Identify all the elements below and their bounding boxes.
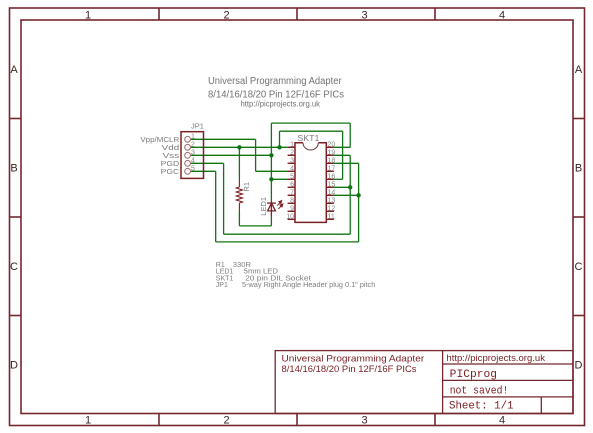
SKT1 pin 9 stub (288, 210, 295, 212)
JP1 pin 4 circle (185, 160, 191, 166)
svg-text:R1: R1 (242, 182, 251, 192)
svg-text:2: 2 (223, 10, 229, 22)
svg-text:4: 4 (499, 415, 505, 427)
svg-text:2: 2 (223, 415, 229, 427)
svg-text:9: 9 (290, 206, 294, 213)
LED1 triangle (268, 203, 276, 211)
SKT1 pin 15 stub (326, 186, 334, 188)
JP1 pin 5 circle (185, 168, 191, 174)
svg-text:14: 14 (328, 190, 336, 197)
svg-text:LED1: LED1 (259, 197, 268, 216)
svg-text:1: 1 (85, 415, 91, 427)
svg-text:19: 19 (328, 150, 336, 157)
svg-text:Universal Programming Adapter: Universal Programming Adapter (282, 354, 425, 365)
svg-text:D: D (575, 360, 583, 372)
svg-text:PGC: PGC (161, 167, 180, 176)
svg-text:PICprog: PICprog (450, 369, 497, 381)
title block vertical divider (442, 351, 444, 414)
SKT1 pin 6 stub (288, 186, 295, 188)
SKT1 pin 5 stub (288, 178, 295, 180)
frame tick left 1 (10, 118, 22, 120)
frame tick right 2 (573, 216, 585, 218)
svg-text:4: 4 (499, 10, 505, 22)
svg-text:8/14/16/18/20 Pin 12F/16F PICs: 8/14/16/18/20 Pin 12F/16F PICs (282, 364, 417, 375)
wire Vpp/MCLR vertical (255, 139, 257, 171)
svg-text:13: 13 (328, 198, 336, 205)
svg-text:17: 17 (328, 166, 336, 173)
wire Vdd JP1.2 to SKT1 pin1 (191, 146, 288, 148)
SKT1 pin 7 stub (288, 194, 295, 196)
svg-text:12: 12 (328, 206, 336, 213)
wire LED1 anode lead (270, 217, 272, 226)
frame tick bottom 1 (158, 414, 160, 426)
wire R1 bottom lead (238, 211, 240, 226)
frame tick bottom 3 (434, 414, 436, 426)
svg-text:2: 2 (191, 142, 195, 149)
SKT1 pin 8 stub (288, 202, 295, 204)
wire PGC down (215, 171, 217, 242)
frame tick top 1 (158, 8, 160, 20)
svg-text:5: 5 (290, 174, 294, 181)
SKT1 pin 12 stub (326, 210, 334, 212)
svg-text:6: 6 (290, 182, 294, 189)
svg-text:20: 20 (328, 142, 336, 149)
frame tick bottom 2 (296, 414, 298, 426)
connector JP1 body (181, 132, 204, 179)
svg-text:16: 16 (328, 174, 336, 181)
svg-text:2: 2 (290, 150, 294, 157)
svg-text:Universal Programming Adapter: Universal Programming Adapter (208, 76, 342, 87)
svg-text:C: C (10, 261, 18, 273)
wire Vpp/MCLR to SKT1 pin4 (256, 170, 288, 172)
svg-text:1: 1 (290, 142, 294, 149)
socket SKT1 notch (303, 143, 318, 150)
junction Vss SKT1 pin5 (269, 177, 273, 181)
junction PGD SKT1 pin15 (348, 185, 352, 189)
svg-text:JP1: JP1 (216, 282, 228, 289)
SKT1 pin 10 stub (288, 218, 295, 220)
wire R1 to LED1 bottom (239, 225, 271, 227)
SKT1 pin 17 stub (326, 170, 334, 172)
svg-text:B: B (10, 163, 17, 175)
wire Vss down right (349, 123, 351, 147)
wire Vdd riser to R1 (238, 147, 240, 179)
svg-text:1: 1 (85, 10, 91, 22)
frame tick left 2 (10, 216, 22, 218)
SKT1 pin 16 stub (326, 178, 334, 180)
title block outline (275, 351, 573, 414)
frame tick right 3 (573, 315, 585, 317)
svg-text:3: 3 (191, 150, 195, 157)
frame tick left 3 (10, 315, 22, 317)
JP1 pin 3 circle (185, 152, 191, 158)
resistor R1 top lead (238, 179, 240, 187)
svg-text:15: 15 (328, 182, 336, 189)
wire PGD up right (349, 155, 351, 234)
svg-text:not saved!: not saved! (450, 386, 509, 398)
SKT1 pin 13 stub (326, 202, 334, 204)
LED1 cathode lead (270, 200, 272, 216)
wire PGD bottom horizontal (224, 233, 351, 235)
frame tick top 3 (434, 8, 436, 20)
svg-text:http://picprojects.org.uk: http://picprojects.org.uk (446, 353, 545, 364)
svg-text:SKT1: SKT1 (297, 134, 320, 143)
title block row line 2 (443, 379, 573, 381)
SKT1 pin 18 stub (326, 162, 334, 164)
resistor R1 zigzag (236, 187, 242, 203)
LED1 cathode bar (267, 202, 276, 204)
LED1 flash arrow 1 (277, 202, 280, 205)
wire Vss to SKT1 pin5 (271, 178, 287, 180)
svg-text:Sheet: 1/1: Sheet: 1/1 (449, 401, 514, 413)
svg-text:5: 5 (191, 166, 195, 173)
wire Vdd to SKT1 pin16 (334, 178, 343, 180)
SKT1 pin 14 stub (326, 194, 334, 196)
svg-text:C: C (575, 261, 583, 273)
wire Vss top horizontal (271, 122, 350, 124)
wire PGC JP1.5 horizontal (191, 170, 216, 172)
wire PGD to SKT1 pin15 (334, 186, 350, 188)
resistor R1 bottom lead (238, 203, 240, 211)
wire PGC up right (358, 163, 360, 242)
svg-text:11: 11 (328, 214, 335, 221)
wire Vpp/MCLR JP1.1 horizontal (191, 138, 256, 140)
svg-text:5-way Right Angle Header plug: 5-way Right Angle Header plug 0.1" pitch (242, 282, 375, 289)
svg-text:A: A (575, 64, 583, 76)
svg-text:JP1: JP1 (191, 122, 204, 131)
SKT1 pin 4 stub (288, 170, 295, 172)
svg-text:8: 8 (290, 198, 294, 205)
wire Vss vertical (270, 123, 272, 200)
LED1 flash arrow 2 (278, 206, 281, 209)
wire PGD JP1.4 horizontal (191, 162, 224, 164)
wire PGC to SKT1 pin14 (334, 194, 359, 196)
wire PGD down (223, 163, 225, 234)
wire PGC to SKT1 pin18 (334, 162, 359, 164)
svg-text:10: 10 (286, 214, 294, 221)
wire Vdd up left (279, 131, 281, 147)
SKT1 pin 11 stub (326, 218, 334, 220)
SKT1 pin 19 stub (326, 154, 334, 156)
title block row line 3 (443, 396, 573, 398)
svg-text:http://picprojects.org.uk: http://picprojects.org.uk (241, 100, 321, 109)
SKT1 pin 1 stub (288, 146, 295, 148)
junction Vdd riser (277, 145, 281, 149)
wire PGC bottom horizontal (216, 241, 359, 243)
title block small divider (540, 397, 542, 414)
SKT1 pin 2 stub (288, 154, 295, 156)
SKT1 pin 20 stub (326, 146, 334, 148)
svg-text:B: B (575, 163, 582, 175)
svg-text:4: 4 (290, 166, 294, 173)
wire PGD to SKT1 pin19 (334, 154, 350, 156)
svg-text:A: A (10, 64, 18, 76)
SKT1 pin 3 stub (288, 162, 295, 164)
svg-text:7: 7 (290, 190, 294, 197)
JP1 pin 2 circle (185, 144, 191, 150)
svg-text:1: 1 (191, 134, 195, 141)
junction PGC SKT1 pin14 (356, 193, 360, 197)
JP1 pin 1 circle (185, 136, 191, 142)
junction Vss tee (269, 153, 273, 157)
svg-text:3: 3 (361, 10, 367, 22)
socket SKT1 body (295, 143, 326, 223)
svg-text:4: 4 (191, 158, 195, 165)
svg-text:D: D (10, 360, 18, 372)
junction R1 top on Vdd (237, 145, 241, 149)
wire Vdd top horizontal (280, 130, 343, 132)
svg-text:18: 18 (328, 158, 336, 165)
wire Vdd down right (342, 131, 344, 179)
svg-text:3: 3 (290, 158, 294, 165)
frame tick top 2 (296, 8, 298, 20)
wire Vss to SKT1 pin20 (334, 146, 350, 148)
frame tick right 1 (573, 118, 585, 120)
svg-text:3: 3 (361, 415, 367, 427)
title block row line 1 (443, 363, 573, 365)
wire Vss JP1.3 horizontal (191, 154, 272, 156)
